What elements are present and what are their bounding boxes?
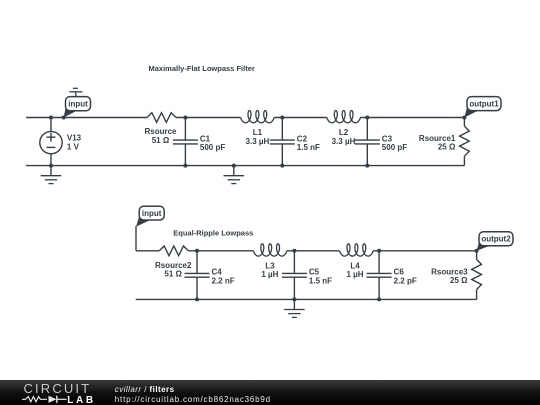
wire top rail segment 4: [360, 117, 464, 119]
label C4: [212, 268, 235, 286]
svg-text:3.3 µH: 3.3 µH: [332, 137, 356, 146]
svg-text:input: input: [68, 100, 88, 109]
flag input (top): [64, 88, 91, 117]
label C6: [394, 268, 417, 286]
svg-text:25 Ω: 25 Ω: [438, 143, 456, 152]
title Equal-Ripple: [173, 229, 253, 238]
capacitor C1: [173, 118, 198, 166]
node C4 bottom: [195, 297, 199, 301]
node C6 bottom: [377, 297, 381, 301]
resistor Rsource: [147, 113, 176, 123]
wire main rail seg2: [188, 250, 253, 252]
wire bottom rail (top circuit): [26, 165, 464, 167]
svg-text:1.5 nF: 1.5 nF: [309, 276, 332, 285]
wire top rail segment left: [26, 117, 147, 119]
label C2: [297, 134, 320, 152]
resistor Rsource2: [159, 246, 188, 256]
label Rsource1: [419, 134, 456, 152]
inductor L4: [340, 244, 374, 256]
wire input drop: [136, 226, 159, 251]
svg-text:2.2 pF: 2.2 pF: [394, 276, 417, 285]
voltage source V13: [40, 118, 82, 166]
node C1 bottom: [183, 164, 187, 168]
svg-text:1.5 nF: 1.5 nF: [297, 143, 320, 152]
label C3: [382, 134, 407, 152]
resistor Rsource1: [460, 118, 470, 166]
node C1 top: [183, 116, 187, 120]
svg-text:CIRCUIT: CIRCUIT: [24, 381, 92, 396]
capacitor C3: [355, 118, 380, 166]
wire main rail seg3: [287, 250, 340, 252]
capacitor C4: [185, 251, 210, 300]
label Rsource: [144, 127, 177, 145]
label L3: [261, 262, 278, 280]
ground below V13: [41, 166, 62, 184]
node ground mid: [232, 164, 236, 168]
label Rsource2: [155, 261, 192, 279]
label C1: [200, 134, 225, 152]
svg-text:51 Ω: 51 Ω: [164, 270, 182, 279]
node C3 bottom: [365, 164, 369, 168]
label L2: [332, 128, 356, 146]
node C2 bottom: [280, 164, 284, 168]
node C5 top: [292, 249, 296, 253]
label L4: [346, 262, 363, 280]
node C3 top: [365, 116, 369, 120]
node V13 top: [49, 116, 53, 120]
svg-text:3.3 µH: 3.3 µH: [246, 137, 270, 146]
resistor Rsource3: [472, 251, 482, 300]
flag output2: [477, 232, 513, 251]
wire top rail segment 3: [274, 117, 327, 119]
credits line: [115, 385, 175, 394]
wire top rail segment 2: [176, 117, 241, 119]
svg-text:Equal-Ripple Lowpass: Equal-Ripple Lowpass: [173, 229, 253, 238]
node output1 tail: [462, 116, 466, 120]
inductor L3: [253, 244, 287, 256]
svg-text:output2: output2: [481, 235, 511, 244]
label Rsource3: [431, 267, 468, 285]
flag input (bottom): [136, 206, 164, 227]
node V13 bottom: [49, 164, 53, 168]
svg-text:Rsource2: Rsource2: [155, 261, 192, 270]
svg-text:2.2 nF: 2.2 nF: [212, 276, 235, 285]
svg-text:V13: V13: [67, 134, 82, 143]
svg-text:1 µH: 1 µH: [261, 270, 278, 279]
url line: [115, 395, 271, 404]
logo CIRCUIT text: [24, 381, 92, 396]
ground mid (top circuit): [224, 166, 245, 184]
svg-text:1 V: 1 V: [67, 142, 80, 151]
node C5 bottom: [292, 297, 296, 301]
footer bar: [0, 380, 540, 405]
wire bottom rail (bottom circuit): [136, 298, 477, 300]
svg-text:500 pF: 500 pF: [200, 143, 225, 152]
title Maximally-Flat: [149, 64, 255, 73]
node input tail: [62, 116, 66, 120]
node output2 tail: [475, 249, 479, 253]
svg-text:LAB: LAB: [67, 395, 95, 405]
inductor L2: [327, 111, 361, 123]
svg-text:C2: C2: [297, 134, 308, 143]
svg-text:cvillarr / filters: cvillarr / filters: [115, 385, 175, 394]
logo zigzag and diode: [22, 396, 67, 403]
wire main rail seg4: [373, 250, 477, 252]
ground below C5: [284, 299, 305, 317]
label L1: [246, 128, 270, 146]
svg-text:C5: C5: [309, 268, 320, 277]
svg-text:C4: C4: [212, 268, 223, 277]
capacitor C6: [367, 251, 392, 300]
svg-text:C1: C1: [200, 134, 211, 143]
capacitor C2: [270, 118, 295, 166]
svg-text:http://circuitlab.com/cb862nac: http://circuitlab.com/cb862nac36b9d: [115, 395, 271, 404]
flag output1: [464, 97, 501, 118]
svg-text:C3: C3: [382, 134, 393, 143]
svg-text:51 Ω: 51 Ω: [152, 136, 170, 145]
svg-text:Maximally-Flat Lowpass Filter: Maximally-Flat Lowpass Filter: [149, 64, 255, 73]
svg-text:output1: output1: [469, 100, 499, 109]
label C5: [309, 268, 332, 286]
node C4 top: [195, 249, 199, 253]
svg-text:input: input: [142, 209, 162, 218]
svg-text:25 Ω: 25 Ω: [450, 276, 468, 285]
capacitor C5: [282, 251, 307, 300]
svg-text:C6: C6: [394, 268, 405, 277]
svg-text:1 µH: 1 µH: [346, 270, 363, 279]
node C6 top: [377, 249, 381, 253]
inductor L1: [241, 111, 275, 123]
node C2 top: [280, 116, 284, 120]
logo LAB text: [67, 395, 95, 405]
svg-text:500 pF: 500 pF: [382, 143, 407, 152]
svg-text:Rsource: Rsource: [144, 127, 177, 136]
